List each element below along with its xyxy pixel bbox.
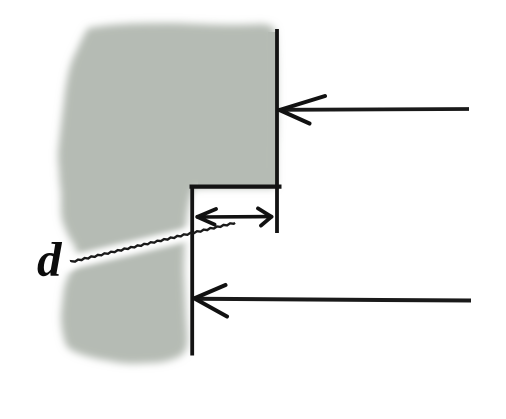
squiggly leader line from label d: [71, 223, 235, 262]
shaded block sharp fill above step edge: [198, 168, 277, 186]
double-headed dimension arrow for d: [199, 215, 269, 219]
shaded block sharp fill along upper vertical edge: [268, 32, 276, 184]
lower arrowhead: [194, 285, 227, 317]
barrier upper vertical edge: [275, 29, 279, 233]
upper incoming ray (arrow shaft): [281, 107, 469, 112]
step horizontal edge: [190, 185, 282, 189]
lower incoming ray (arrow shaft): [196, 299, 471, 301]
right head of dimension arrow: [258, 208, 272, 225]
upper arrowhead: [280, 96, 326, 124]
barrier lower vertical edge: [190, 185, 194, 356]
white halo under leader line: [66, 225, 228, 264]
shaded block (gray body with step notch): [58, 23, 277, 364]
left head of dimension arrow: [197, 209, 216, 225]
svg-text:d: d: [37, 232, 63, 287]
